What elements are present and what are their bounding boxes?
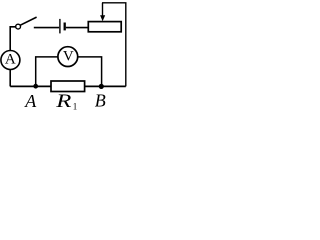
svg-text:A: A xyxy=(5,51,16,67)
svg-text:1: 1 xyxy=(73,101,78,111)
svg-text:V: V xyxy=(63,49,74,65)
svg-text:B: B xyxy=(95,91,106,111)
svg-text:A: A xyxy=(24,91,37,111)
svg-text:R: R xyxy=(55,90,72,112)
